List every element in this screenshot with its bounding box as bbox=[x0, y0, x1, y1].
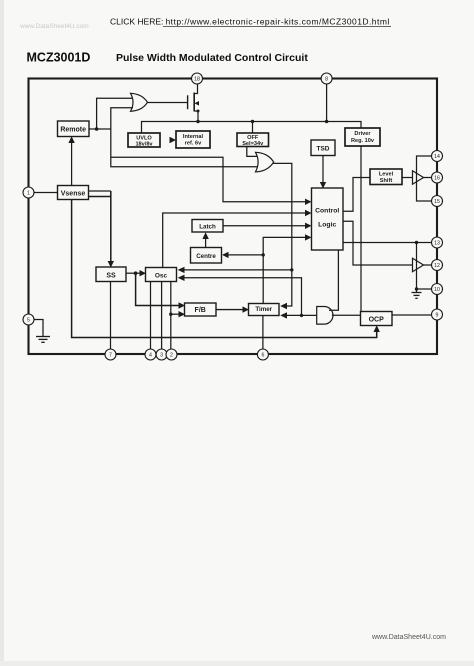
svg-text:Level: Level bbox=[379, 172, 394, 178]
svg-text:Timer: Timer bbox=[255, 306, 272, 313]
svg-text:15: 15 bbox=[434, 199, 440, 205]
svg-text:ref. 6v: ref. 6v bbox=[185, 141, 202, 147]
svg-text:14: 14 bbox=[434, 154, 440, 160]
svg-text:Internal: Internal bbox=[183, 134, 204, 140]
svg-text:12: 12 bbox=[434, 263, 440, 269]
svg-text:8: 8 bbox=[325, 77, 328, 83]
svg-text:www.DataSheet4U.com: www.DataSheet4U.com bbox=[371, 634, 446, 641]
svg-text:16: 16 bbox=[434, 176, 440, 182]
svg-text:OFF: OFF bbox=[247, 135, 259, 141]
svg-text:Pulse Width Modulated Control: Pulse Width Modulated Control Circuit bbox=[116, 52, 308, 64]
svg-text:5: 5 bbox=[27, 318, 30, 324]
svg-text:Control: Control bbox=[315, 208, 339, 215]
svg-text:SS: SS bbox=[106, 272, 116, 279]
svg-text:Latch: Latch bbox=[199, 223, 216, 230]
svg-text:F/B: F/B bbox=[195, 307, 206, 314]
svg-text:18: 18 bbox=[194, 77, 200, 83]
svg-text:Shift: Shift bbox=[380, 178, 393, 184]
svg-text:7: 7 bbox=[109, 353, 112, 359]
svg-text:6: 6 bbox=[261, 353, 264, 359]
svg-text:9: 9 bbox=[436, 313, 439, 319]
svg-text:http://www.electronic-repair-k: http://www.electronic-repair-kits.com/MC… bbox=[166, 17, 390, 27]
svg-text:10: 10 bbox=[434, 287, 440, 293]
svg-text:MCZ3001D: MCZ3001D bbox=[27, 51, 91, 65]
svg-text:www.DataSheet4U.com: www.DataSheet4U.com bbox=[19, 23, 89, 30]
svg-text:3: 3 bbox=[160, 353, 163, 359]
svg-text:4: 4 bbox=[149, 353, 152, 359]
svg-text:18v/8v: 18v/8v bbox=[135, 142, 153, 148]
svg-text:13: 13 bbox=[434, 241, 440, 247]
svg-text:UVLO: UVLO bbox=[136, 136, 152, 142]
svg-text:2: 2 bbox=[170, 353, 173, 359]
svg-text:Driver: Driver bbox=[354, 131, 371, 137]
svg-text:Sel=34v: Sel=34v bbox=[242, 141, 264, 147]
svg-text:Osc: Osc bbox=[155, 272, 168, 279]
svg-text:Vsense: Vsense bbox=[61, 190, 86, 197]
svg-text:OCP: OCP bbox=[369, 317, 385, 324]
svg-text:Remote: Remote bbox=[60, 126, 86, 133]
svg-text:Logic: Logic bbox=[318, 222, 336, 229]
svg-text:Reg. 10v: Reg. 10v bbox=[351, 138, 375, 144]
svg-text:TSD: TSD bbox=[317, 145, 330, 152]
svg-text:CLICK HERE:: CLICK HERE: bbox=[110, 17, 163, 27]
svg-text:Centre: Centre bbox=[196, 253, 216, 260]
svg-text:1: 1 bbox=[27, 191, 30, 197]
